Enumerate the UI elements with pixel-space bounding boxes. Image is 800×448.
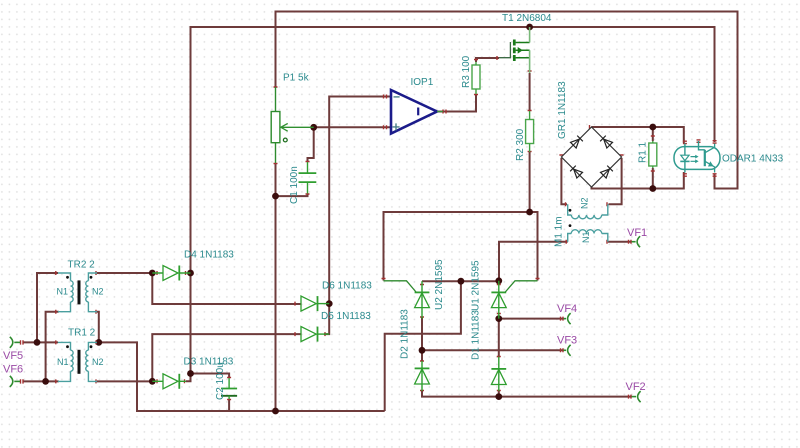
- wire U1 anode column: [498, 319, 500, 358]
- label D4 1N1183: [184, 250, 234, 261]
- wire cathode rail U2 to U1: [422, 280, 499, 282]
- svg-text:T1 2N6804: T1 2N6804: [502, 13, 552, 24]
- wire D6 cathode down to D5 cathode: [324, 304, 329, 335]
- label U1 2N1595: [471, 260, 482, 311]
- svg-text:TR2 2: TR2 2: [68, 260, 96, 271]
- wire net top A from P1 top to optocoupler emitter: [276, 12, 738, 189]
- svg-text:D4 1N1183: D4 1N1183: [184, 250, 234, 261]
- resistor R1: [649, 141, 657, 168]
- label C2 100u: [215, 362, 226, 400]
- label D5 1N1183: [321, 311, 371, 322]
- svg-text:VF1: VF1: [627, 227, 647, 239]
- wire D2 D1 cathode rail to VF2: [422, 391, 631, 397]
- wire op-amp inverting input to D6 cathode: [329, 97, 391, 304]
- wire TR2 secondary bottom to TR1 secondary top: [97, 312, 99, 343]
- pin connection tick marks: [21, 56, 717, 400]
- wire GR1 left to M1 N2 left: [561, 158, 567, 204]
- capacitor C1: [299, 162, 317, 194]
- diode D2: [415, 361, 430, 391]
- wire M1 N1 left to U1 anode node: [499, 242, 568, 281]
- wire C1 bottom to P1 column: [276, 194, 308, 197]
- capacitor C2: [221, 378, 237, 399]
- wire GR1 right to M1 N2 right: [609, 158, 622, 204]
- thyristor U2: [384, 281, 430, 319]
- svg-text:M1 1m: M1 1m: [554, 216, 565, 247]
- diode D6: [301, 296, 329, 311]
- svg-text:C1 100n: C1 100n: [289, 166, 300, 204]
- wire C2 bottom to bottom rail: [228, 399, 230, 411]
- label TR2 N2: [92, 287, 104, 297]
- label R2 300: [515, 128, 526, 161]
- wire D4 anode down to D6 anode: [152, 273, 301, 304]
- svg-text:VF5: VF5: [3, 350, 23, 362]
- terminal VF4: [564, 313, 571, 324]
- svg-text:U2 2N1595: U2 2N1595: [434, 259, 445, 310]
- label IOP1: [411, 77, 434, 88]
- wire gate node to U2 gate and U1 gate: [384, 212, 538, 281]
- wire R1 column: [652, 127, 654, 189]
- label VF1: [627, 227, 647, 239]
- wire R2 bottom to gate node: [529, 152, 531, 212]
- wire bottom rail from TR1 to link: [99, 342, 385, 411]
- svg-text:N1: N1: [581, 231, 591, 243]
- resistor R2: [526, 111, 534, 152]
- wire R3 top to T1 gate: [476, 58, 499, 62]
- label C1 100n: [289, 166, 300, 204]
- wire U2 anode column: [421, 318, 423, 362]
- label GR1 1N1183: [557, 81, 568, 139]
- svg-text:VF3: VF3: [557, 335, 577, 347]
- svg-text:VF6: VF6: [3, 364, 23, 376]
- inductor M1 windings N1 N2: [568, 204, 608, 241]
- label VF5: [3, 350, 23, 362]
- svg-text:R1 1: R1 1: [638, 141, 649, 163]
- wire cathode rail down to bottom rail link: [385, 281, 461, 411]
- svg-text:N2: N2: [92, 287, 104, 297]
- label TR2 2: [68, 260, 96, 271]
- wire net top B from D4 cathode column to optocoupler collector: [191, 27, 715, 374]
- diode D5: [301, 327, 329, 342]
- wire T1 source to R2 top: [529, 73, 531, 111]
- label D1 1N1183: [471, 310, 482, 360]
- terminal VF2: [632, 391, 641, 402]
- label D2 1N1183: [400, 309, 411, 359]
- label ODAR1 4N33: [722, 154, 784, 165]
- svg-text:N1: N1: [57, 287, 69, 297]
- label TR2 N1: [57, 287, 69, 297]
- label U2 2N1595: [434, 259, 445, 310]
- wire VF6 terminal to TR2 and TR1 primary bottom: [23, 312, 59, 382]
- label R3 100: [461, 55, 472, 88]
- svg-text:GR1 1N1183: GR1 1N1183: [557, 81, 568, 139]
- op-amp IOP1: [391, 90, 443, 134]
- potentiometer P1: [271, 87, 314, 163]
- label TR1 N2: [92, 357, 104, 367]
- wire D5 anode row and down to D3 anode: [152, 334, 301, 381]
- thyristor U1: [491, 281, 537, 319]
- svg-text:D1 1N1183: D1 1N1183: [471, 310, 482, 360]
- label R1 1: [638, 141, 649, 163]
- wire U1 cathode node to VF4: [499, 318, 563, 320]
- wire P1 wiper node down to C1 top: [308, 127, 314, 162]
- svg-text:TR1 2: TR1 2: [68, 328, 96, 339]
- label VF2: [626, 381, 646, 393]
- label VF4: [557, 303, 577, 315]
- svg-text:ODAR1 4N33: ODAR1 4N33: [722, 154, 784, 165]
- transformer TR2: [58, 273, 97, 312]
- svg-text:VF2: VF2: [626, 381, 646, 393]
- label VF3: [557, 335, 577, 347]
- label M1 1m: [554, 216, 565, 247]
- resistor R3: [472, 62, 480, 94]
- label VF6: [3, 364, 23, 376]
- optocoupler ODAR1: [674, 141, 720, 173]
- diode D1: [491, 357, 506, 391]
- svg-text:D2 1N1183: D2 1N1183: [400, 309, 411, 359]
- svg-text:N2: N2: [580, 197, 590, 209]
- terminal VF3: [564, 345, 571, 356]
- label D6 1N1183: [322, 281, 372, 292]
- svg-text:C2 100u: C2 100u: [215, 362, 226, 400]
- label T1 2N6804: [502, 13, 552, 24]
- wire P1 bottom column to bottom rail: [275, 163, 277, 411]
- wire U2 anode node to VF3: [422, 349, 563, 351]
- wire GR1 top to R1 top and LED anode: [592, 127, 684, 143]
- terminal VF1: [632, 236, 641, 247]
- wire TR2 secondary top to D4: [97, 272, 152, 274]
- label TR1 2: [68, 328, 96, 339]
- diode D3: [152, 374, 186, 389]
- diode D4: [152, 266, 190, 281]
- svg-text:D5 1N1183: D5 1N1183: [321, 311, 371, 322]
- svg-text:D3 1N1183: D3 1N1183: [184, 357, 234, 368]
- svg-text:P1 5k: P1 5k: [283, 73, 310, 84]
- label D3 1N1183: [184, 357, 234, 368]
- wire VF5 terminal to TR2 and TR1 primary: [23, 273, 59, 342]
- svg-text:N2: N2: [92, 357, 104, 367]
- terminal VF5: [10, 337, 20, 348]
- label P1 5k: [283, 73, 310, 84]
- bridge rectifier GR1: [561, 127, 621, 187]
- label TR1 N1: [57, 357, 69, 367]
- transistor T1 MOSFET: [499, 27, 530, 73]
- wire GR1 bottom to R1 bottom and LED cathode: [592, 172, 684, 189]
- transformer TR1: [58, 342, 97, 381]
- svg-text:N1: N1: [57, 357, 69, 367]
- label M1 N2: [580, 197, 590, 209]
- wire TR1 secondary bottom to D3 anode: [97, 380, 152, 382]
- svg-text:U1 2N1595: U1 2N1595: [471, 260, 482, 311]
- svg-text:R3 100: R3 100: [461, 55, 472, 88]
- wire M1 N1 right to VF1: [608, 241, 631, 243]
- svg-text:R2 300: R2 300: [515, 128, 526, 161]
- svg-text:D6 1N1183: D6 1N1183: [322, 281, 372, 292]
- wire op-amp output to R3 bottom: [437, 94, 476, 112]
- label M1 N1: [581, 231, 591, 243]
- wire D3 cathode to C2 top: [186, 374, 229, 382]
- wire op-amp non-inverting input from P1 wiper node: [314, 126, 391, 128]
- svg-text:VF4: VF4: [557, 303, 577, 315]
- terminal VF6: [10, 376, 20, 387]
- svg-text:IOP1: IOP1: [411, 77, 434, 88]
